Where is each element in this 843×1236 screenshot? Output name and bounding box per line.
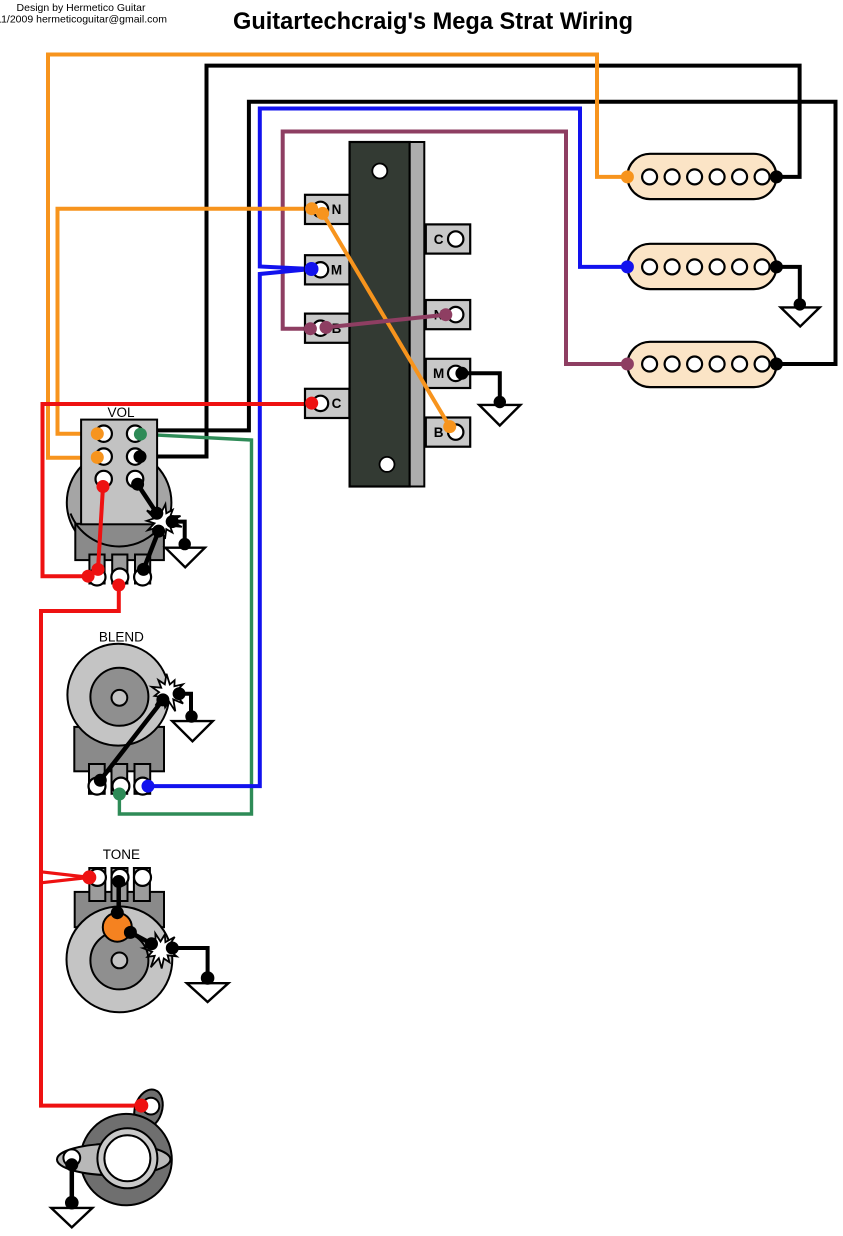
potentiometer VOL base xyxy=(75,524,164,560)
pickup neck pole 1 xyxy=(642,169,657,184)
ground: TONE casing xyxy=(187,983,229,1002)
wire black: VOL lug A3-right to casing solder xyxy=(138,484,157,513)
wire red: VOL lug A3-left to bottom lug 1 xyxy=(98,487,103,570)
potentiometer VOL lug hole A1 left xyxy=(96,426,112,442)
node: capacitor top (black) xyxy=(111,906,124,919)
ground: BLEND casing xyxy=(172,721,213,741)
pickup neck pole 6 xyxy=(755,169,770,184)
pickup neck pole 3 xyxy=(687,169,702,184)
potentiometer VOL lug hole A2 right xyxy=(127,448,143,464)
wire black: casing solder to VOL bottom lug 3 xyxy=(144,531,159,569)
wire black: jack sleeve to ground xyxy=(70,1165,75,1203)
wire purple: bridge pickup hot to switch B left xyxy=(283,132,628,365)
node: VOL bottom lug 1 (red) xyxy=(82,570,95,583)
switch terminal C (right) xyxy=(426,224,470,253)
pickup bridge pole 6 xyxy=(755,357,770,372)
pickup bridge pole 1 xyxy=(642,357,657,372)
node: switch N left (orange) xyxy=(305,202,318,215)
potentiometer TONE top lug hole 3 xyxy=(134,869,151,886)
pickup bridge body xyxy=(627,342,776,387)
wire black: switch M right to ground xyxy=(462,373,500,402)
junction: TONE ground dot xyxy=(201,971,215,985)
pickup neck pole 4 xyxy=(710,169,725,184)
switch SW1 bottom mounting hole xyxy=(380,457,395,472)
potentiometer BLEND shaft circle xyxy=(112,690,128,706)
wire black: capacitor to casing solder xyxy=(130,932,151,943)
output jack J1 side lug plate xyxy=(57,1144,170,1175)
node: VOL lug A2 (black) xyxy=(134,450,147,463)
potentiometer TONE base xyxy=(75,892,164,927)
switch terminal M (left) xyxy=(305,255,349,284)
pickup bridge pole 3 xyxy=(687,357,702,372)
solder blob on VOL casing xyxy=(147,504,182,539)
potentiometer BLEND bottom tab 1 xyxy=(89,764,105,794)
junction: VOL ground dot xyxy=(179,538,191,550)
node: TONE lug 2 (black) xyxy=(112,875,125,888)
switch terminal C (left) xyxy=(305,389,349,418)
node: VOL bottom lug 1 upper (red) xyxy=(92,563,105,576)
potentiometer BLEND bottom tab 3 xyxy=(135,764,151,794)
potentiometer BLEND bottom tab 2 xyxy=(112,764,128,794)
potentiometer TONE middle circle xyxy=(90,931,148,989)
wire red: VOL bottom lug 2 to TONE lug 1 and output jack xyxy=(41,585,141,1106)
junction: jack ground dot xyxy=(65,1196,79,1210)
potentiometer TONE outer circle xyxy=(67,907,173,1013)
node: switch N left jumper (orange) xyxy=(316,207,329,220)
potentiometer BLEND bottom lug hole 1 xyxy=(89,778,106,795)
output jack J1 side lug hole xyxy=(63,1149,80,1166)
switch terminal M (right) xyxy=(426,359,470,388)
output jack J1 ring xyxy=(97,1128,157,1188)
solder blob on BLEND casing xyxy=(152,674,184,712)
wire blue: middle pickup hot to switch M left xyxy=(260,109,628,270)
pickup middle pole 3 xyxy=(687,259,702,274)
potentiometer VOL bottom lug hole 1 xyxy=(89,569,106,586)
pickup middle pole 5 xyxy=(732,259,747,274)
wire black: TONE lug 2 to capacitor xyxy=(116,882,121,913)
svg-text:N: N xyxy=(332,202,342,217)
switch terminal B (right) xyxy=(426,418,470,447)
node: switch M left (blue) xyxy=(305,262,319,276)
wire orange: neck pickup hot to VOL lug B2 xyxy=(48,55,627,458)
potentiometer VOL bottom lug hole 2 xyxy=(111,569,128,586)
node: middle pickup ground (black) xyxy=(770,260,783,273)
capacitor C1 xyxy=(103,913,132,942)
potentiometer TONE top tab 2 xyxy=(112,868,128,901)
potentiometer TONE shaft circle xyxy=(112,953,128,969)
pickup middle pole 6 xyxy=(755,259,770,274)
potentiometer BLEND bottom lug hole 2 xyxy=(112,778,129,795)
node: jack tip (red) xyxy=(134,1099,148,1113)
solder blob on TONE casing xyxy=(143,933,177,968)
svg-text:C: C xyxy=(434,232,444,247)
node: VOL lug B2 (orange) xyxy=(91,451,104,464)
node: BLEND lug 2 (green) xyxy=(113,788,126,801)
wire black: bridge pickup ground to VOL lug A1 xyxy=(141,102,836,431)
node: VOL casing solder right (black) xyxy=(166,515,179,528)
node: VOL lug A3-left (red) xyxy=(97,480,110,493)
switch SW1 body xyxy=(350,142,410,487)
potentiometer VOL body outline over base xyxy=(71,514,168,547)
svg-text:C: C xyxy=(332,396,342,411)
potentiometer VOL bottom tab 1 xyxy=(89,555,104,584)
node: TONE casing solder right (black) xyxy=(166,942,179,955)
svg-text:B: B xyxy=(434,425,444,440)
wire black: BLEND casing to ground xyxy=(179,694,191,717)
node: VOL bottom lug 2 (red) xyxy=(112,579,125,592)
pickup neck pole 2 xyxy=(665,169,680,184)
ground: middle pickup xyxy=(781,307,820,326)
pickup middle pole 1 xyxy=(642,259,657,274)
node: bridge pickup hot (purple) xyxy=(621,358,634,371)
junction: middle pickup ground symbol dot xyxy=(794,298,806,310)
node: switch N right (purple) xyxy=(439,308,452,321)
wire black: middle pickup ground to ground xyxy=(776,267,799,305)
node: neck pickup hot (orange) xyxy=(621,170,634,183)
node: jack sleeve (black) xyxy=(65,1158,78,1171)
wire orange: jumper switch N left to switch B right xyxy=(323,213,450,426)
switch terminal N (right) xyxy=(426,300,470,329)
node: VOL casing solder bottom (black) xyxy=(152,525,165,538)
potentiometer TONE top tab 1 xyxy=(89,868,105,901)
wire black: neck pickup ground to VOL lug A2 xyxy=(140,66,800,457)
svg-text:BLEND: BLEND xyxy=(99,630,144,645)
wire red: branch to TONE lug 1 (lower) xyxy=(41,877,89,882)
potentiometer BLEND outer circle xyxy=(67,644,169,746)
pickup middle pole 2 xyxy=(665,259,680,274)
node: VOL bottom lug 3 (black) xyxy=(137,563,150,576)
wire black: BLEND lug 1 to casing solder xyxy=(100,700,163,780)
wire red: branch to TONE lug 1 (upper) xyxy=(41,872,89,878)
potentiometer VOL lug hole A3 left xyxy=(96,471,112,487)
node: VOL lug B1 (orange) xyxy=(91,427,104,440)
switch terminal B (left) xyxy=(305,314,349,343)
svg-text:Design by Hermetico Guitar: Design by Hermetico Guitar xyxy=(17,2,146,14)
potentiometer VOL lug hole A1 right xyxy=(127,426,143,442)
node: capacitor right (black) xyxy=(124,926,137,939)
wire black: VOL casing to ground xyxy=(172,522,185,545)
svg-text:M: M xyxy=(331,263,342,278)
potentiometer VOL lug hole A2 left xyxy=(96,448,112,464)
pickup bridge pole 4 xyxy=(710,357,725,372)
node: TONE casing solder left (black) xyxy=(145,937,158,950)
ground: VOL casing xyxy=(165,548,205,568)
pickup bridge pole 2 xyxy=(665,357,680,372)
svg-text:VOL: VOL xyxy=(107,405,135,420)
svg-text:TONE: TONE xyxy=(103,847,140,862)
wire blue: switch M left to BLEND right lug xyxy=(148,269,312,786)
node: switch C left (red) xyxy=(305,397,318,410)
node: BLEND lug 3 (blue) xyxy=(142,780,155,793)
potentiometer VOL bottom tab 2 xyxy=(112,555,127,584)
pickup bridge pole 5 xyxy=(732,357,747,372)
wire purple: jumper switch B left to switch N right xyxy=(326,315,446,328)
node: switch M right (black) xyxy=(455,367,468,380)
pickup neck body xyxy=(627,154,776,199)
node: switch B right (orange) xyxy=(443,420,456,433)
output jack J1 center hole xyxy=(104,1135,150,1181)
potentiometer VOL bottom lug hole 3 xyxy=(134,569,151,586)
node: VOL lug A3-right (black) xyxy=(131,478,144,491)
potentiometer VOL bottom tab 3 xyxy=(135,555,150,584)
wire black: TONE casing to ground xyxy=(172,948,207,978)
junction: switch ground dot xyxy=(494,396,506,408)
potentiometer TONE top lug hole 1 xyxy=(89,869,106,886)
potentiometer TONE top tab 3 xyxy=(134,868,150,901)
node: BLEND lug 1 (black) xyxy=(94,774,107,787)
switch terminal N (left) xyxy=(305,195,349,224)
potentiometer BLEND middle circle xyxy=(90,668,148,726)
node: switch B left (purple) xyxy=(304,322,317,335)
ground: switch M right xyxy=(479,405,520,426)
node: BLEND casing solder right (black) xyxy=(173,687,186,700)
svg-text:Guitartechcraig's Mega Strat W: Guitartechcraig's Mega Strat Wiring xyxy=(233,9,633,35)
switch SW1 top mounting hole xyxy=(372,164,387,179)
wire red: switch C left to VOL bottom lug 1 xyxy=(43,404,312,576)
potentiometer VOL lug plate xyxy=(81,420,157,525)
switch SW1 side strip xyxy=(410,142,425,487)
pickup neck pole 5 xyxy=(732,169,747,184)
svg-text:M: M xyxy=(433,366,444,381)
wire green: VOL lug A1 to BLEND middle lug xyxy=(119,434,251,814)
output jack J1 body xyxy=(80,1114,171,1205)
ground: jack sleeve xyxy=(51,1208,92,1228)
potentiometer BLEND bottom lug hole 3 xyxy=(134,778,151,795)
node: BLEND casing solder left (black) xyxy=(156,693,169,706)
node: middle pickup hot (blue) xyxy=(621,260,634,273)
wire orange: switch N left to VOL lug B1 xyxy=(58,209,312,434)
output jack J1 top lug hole xyxy=(143,1098,160,1115)
node: VOL lug A1 (green) xyxy=(134,428,147,441)
junction: BLEND ground dot xyxy=(185,710,197,722)
pickup middle pole 4 xyxy=(710,259,725,274)
node: neck pickup ground (black) xyxy=(770,170,783,183)
node: VOL casing solder top (black) xyxy=(150,507,163,520)
svg-text:11/2009 hermeticoguitar@gmail.: 11/2009 hermeticoguitar@gmail.com xyxy=(0,14,167,26)
node: bridge pickup ground (black) xyxy=(770,358,783,371)
node: switch B left jumper (purple) xyxy=(320,321,333,334)
potentiometer VOL body circle xyxy=(67,450,172,555)
potentiometer VOL lug hole A3 right xyxy=(127,471,143,487)
output jack J1 top lug xyxy=(129,1086,167,1132)
potentiometer BLEND base xyxy=(74,727,164,771)
node: TONE lug 1 (red) xyxy=(82,870,96,884)
pickup middle body xyxy=(627,244,776,289)
potentiometer TONE top lug hole 2 xyxy=(112,869,129,886)
